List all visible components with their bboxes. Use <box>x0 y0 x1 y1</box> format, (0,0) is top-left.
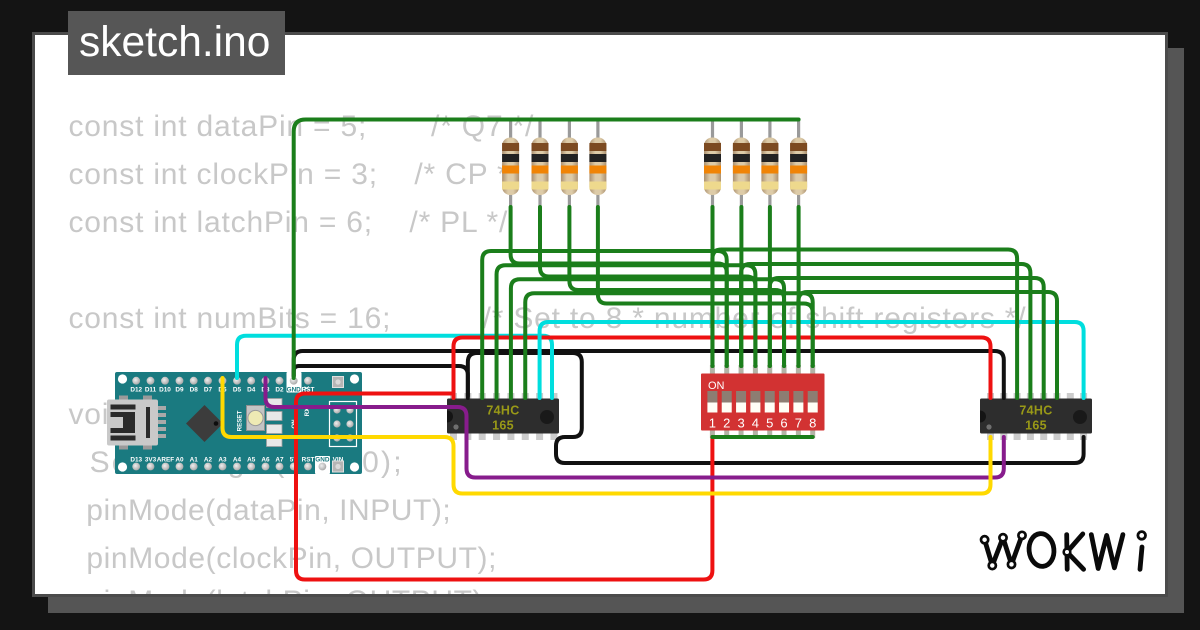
svg-text:165: 165 <box>1025 419 1047 433</box>
svg-text:D2: D2 <box>275 386 284 393</box>
svg-text:D10: D10 <box>159 386 171 393</box>
svg-text:165: 165 <box>492 419 514 433</box>
svg-text:74HC: 74HC <box>1019 404 1052 418</box>
svg-text:D5: D5 <box>233 386 242 393</box>
svg-text:5: 5 <box>766 416 773 431</box>
svg-text:1: 1 <box>709 416 716 431</box>
svg-text:8: 8 <box>809 416 816 431</box>
svg-text:74HC: 74HC <box>486 404 519 418</box>
svg-text:D12: D12 <box>130 386 142 393</box>
svg-text:D8: D8 <box>190 386 199 393</box>
svg-text:2: 2 <box>723 416 730 431</box>
svg-text:D7: D7 <box>204 386 213 393</box>
svg-text:ON: ON <box>708 380 725 392</box>
svg-text:GND: GND <box>287 386 302 393</box>
svg-text:6: 6 <box>780 416 787 431</box>
svg-text:3: 3 <box>737 416 744 431</box>
svg-text:D11: D11 <box>145 386 157 393</box>
svg-text:D9: D9 <box>175 386 184 393</box>
svg-text:D4: D4 <box>247 386 256 393</box>
svg-text:4: 4 <box>752 416 759 431</box>
svg-text:7: 7 <box>795 416 802 431</box>
svg-text:RESET: RESET <box>237 410 244 431</box>
